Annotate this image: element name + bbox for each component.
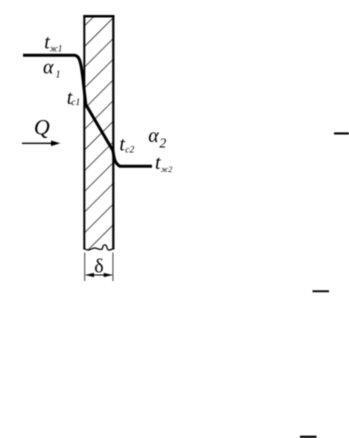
fraction bar fragment top right — [334, 132, 349, 134]
svg-text:α: α — [43, 57, 54, 79]
wall (hatched plane wall) — [84, 0, 114, 254]
svg-text:ж2: ж2 — [161, 165, 172, 174]
hatching — [84, 0, 114, 26]
svg-text:α: α — [148, 125, 159, 147]
fraction bar fragment bottom right — [300, 436, 317, 438]
fraction bar fragment middle right — [313, 290, 330, 292]
wall top border — [83, 15, 114, 18]
svg-text:с1: с1 — [71, 98, 80, 108]
svg-text:с2: с2 — [125, 146, 134, 156]
svg-text:ж1: ж1 — [50, 44, 63, 54]
svg-text:δ: δ — [94, 255, 103, 277]
dimension extension line right — [112, 253, 114, 282]
dimension line with arrows (delta) — [86, 274, 112, 276]
dimension extension line left — [84, 253, 86, 282]
wall torn bottom edge — [84, 245, 115, 250]
svg-text:1: 1 — [56, 70, 61, 81]
wall left border — [83, 15, 85, 249]
temperature curve t_zh1 -> t_c1 -> t_c2 -> t_zh2 — [23, 55, 152, 166]
svg-text:2: 2 — [160, 135, 167, 150]
wall right border — [112, 15, 114, 249]
Q heat flux arrow — [22, 142, 54, 144]
svg-text:Q: Q — [34, 114, 50, 139]
